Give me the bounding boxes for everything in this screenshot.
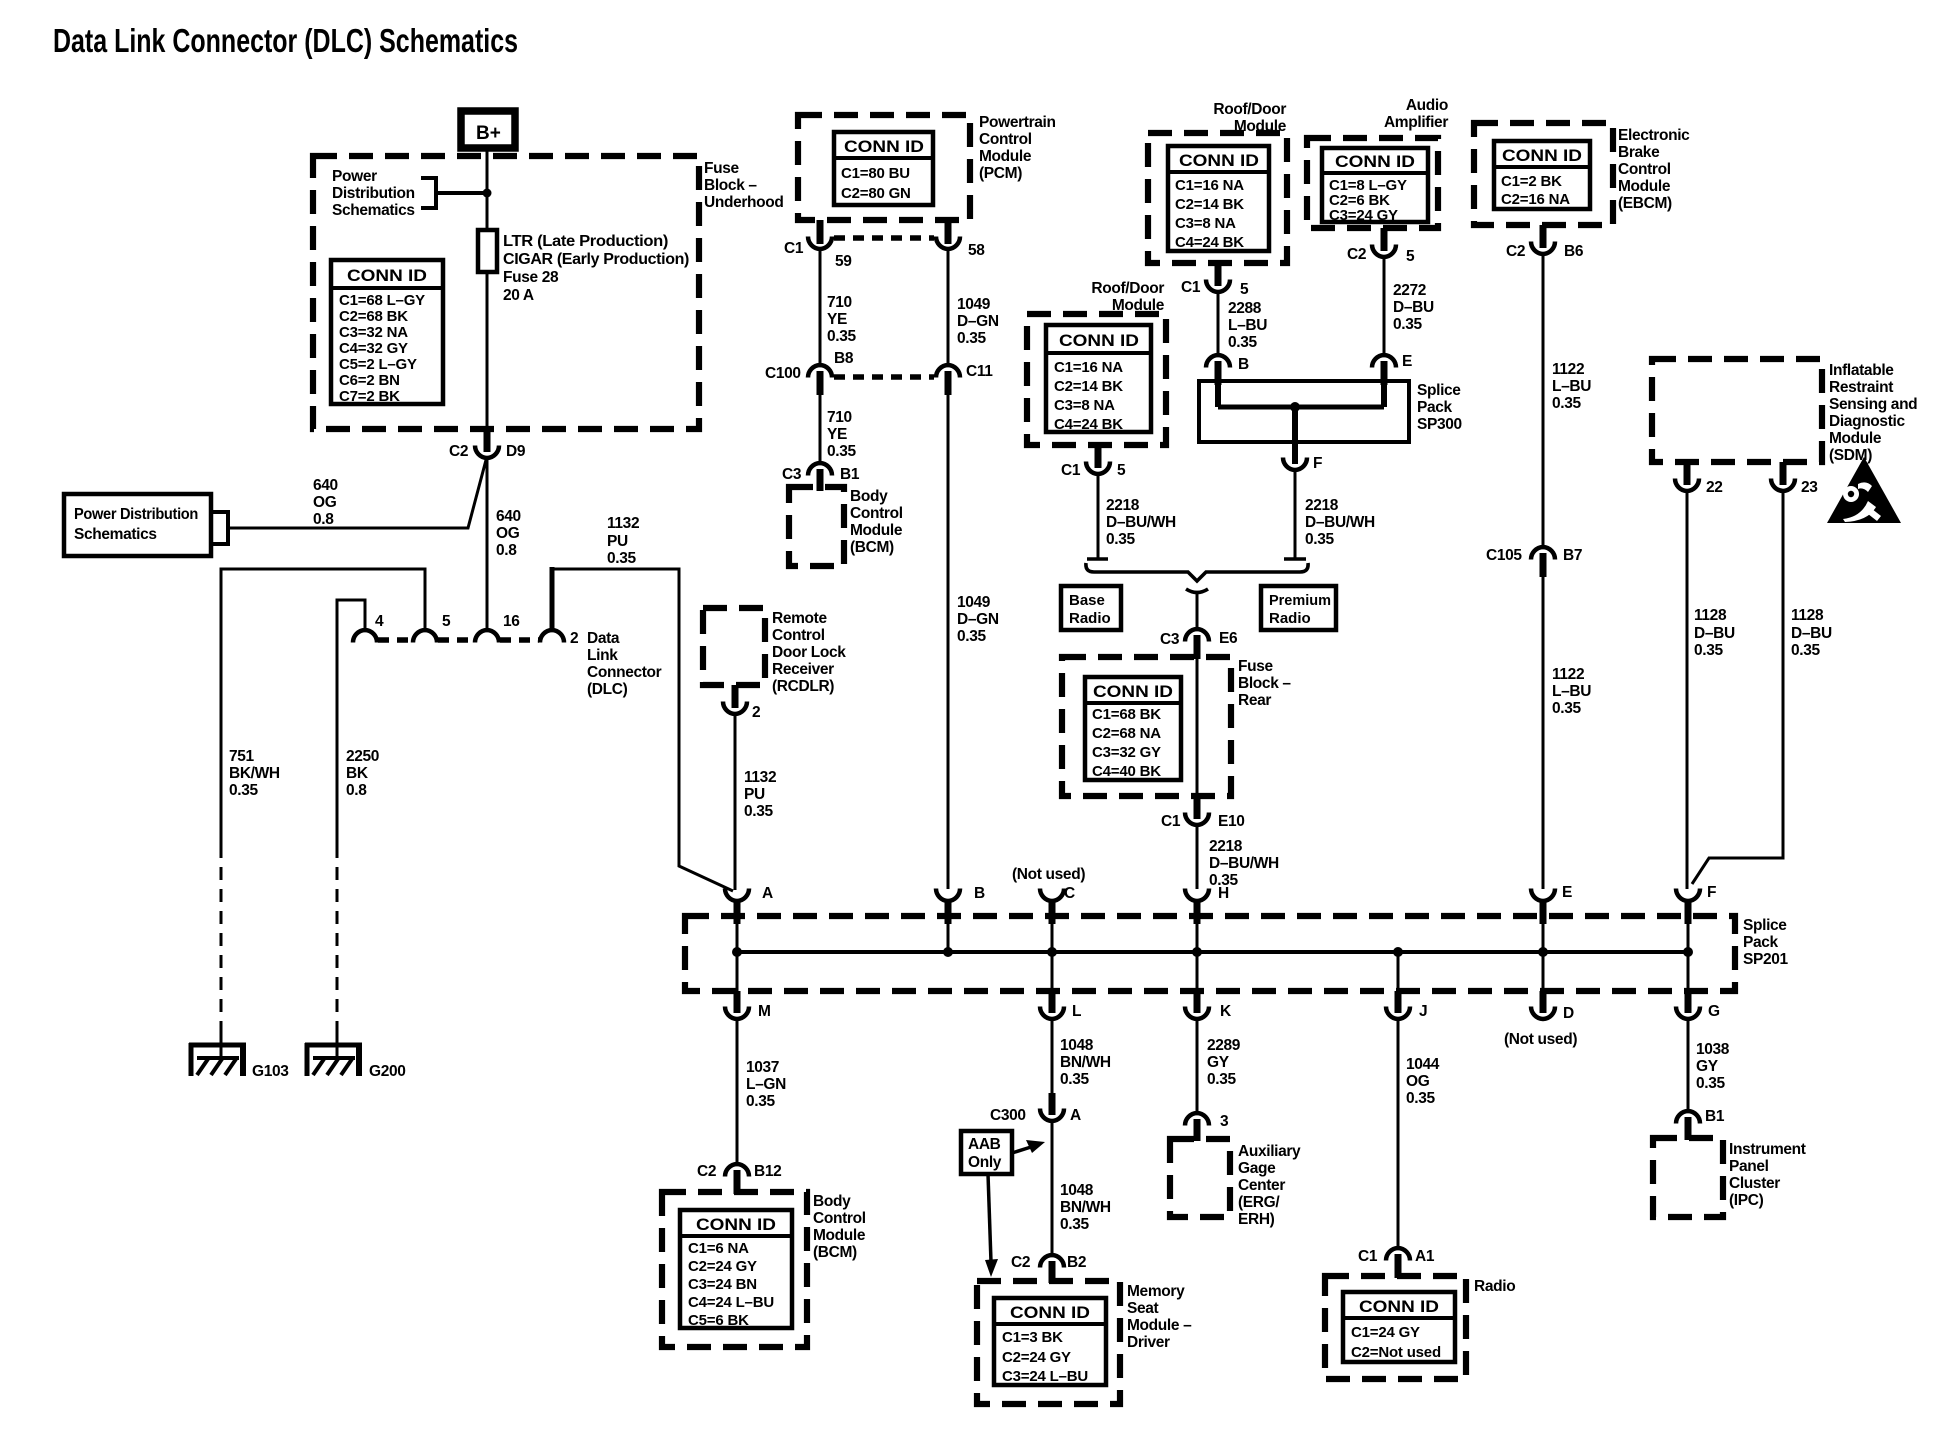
svg-text:BK: BK — [346, 765, 369, 782]
svg-text:(Not used): (Not used) — [1012, 866, 1085, 883]
wire B8 to C3 B1 — [819, 395, 822, 462]
svg-text:2289: 2289 — [1207, 1037, 1241, 1054]
svg-text:1122: 1122 — [1552, 666, 1584, 683]
svg-text:5: 5 — [442, 613, 451, 630]
svg-text:1037: 1037 — [746, 1059, 779, 1076]
roof/door module box — [1148, 133, 1287, 263]
svg-text:Audio: Audio — [1406, 97, 1448, 114]
memory seat module box — [977, 1281, 1120, 1404]
svg-text:C2: C2 — [1506, 243, 1525, 260]
svg-text:B8: B8 — [834, 350, 854, 367]
svg-text:Control: Control — [813, 1210, 866, 1227]
ground G103 — [189, 1032, 246, 1076]
svg-text:C11: C11 — [966, 363, 993, 380]
svg-text:C1=6 NA: C1=6 NA — [688, 1240, 749, 1257]
svg-text:C: C — [1064, 885, 1075, 902]
wire C1-5 to option bar — [1097, 474, 1100, 559]
node junction on B+ wire — [483, 189, 492, 198]
svg-text:C4=24 BK: C4=24 BK — [1054, 416, 1123, 433]
connector E (SP300) — [1372, 353, 1412, 370]
svg-text:1132: 1132 — [607, 515, 639, 532]
node B — [943, 947, 953, 957]
connector C1 5 (roof/door 2) — [1061, 445, 1126, 479]
svg-text:Base: Base — [1069, 592, 1105, 609]
svg-text:Module: Module — [813, 1227, 866, 1244]
wire label 1044 OG 0.35 — [1406, 1056, 1440, 1107]
connector C1 59 (PCM) — [784, 220, 852, 270]
CONN ID table (roof/door 2) — [1046, 325, 1151, 433]
wire label 710 YE 0.35 — [827, 294, 856, 345]
connector E (SP201) — [1531, 884, 1572, 952]
svg-text:3: 3 — [1220, 1113, 1229, 1130]
svg-text:GY: GY — [1696, 1058, 1719, 1075]
connector C300 A — [990, 1093, 1081, 1124]
svg-text:CONN ID: CONN ID — [1359, 1298, 1439, 1316]
fuse block underhood label — [704, 160, 784, 211]
svg-text:Module: Module — [1618, 178, 1671, 195]
CONN ID table (PCM) — [834, 132, 933, 205]
premium radio box — [1261, 586, 1336, 630]
svg-text:Memory: Memory — [1127, 1283, 1185, 1300]
C100 tie line — [834, 374, 934, 380]
svg-text:0.35: 0.35 — [229, 782, 258, 799]
PCM connector tie line — [834, 235, 934, 241]
AAB arrow to memory seat module — [985, 1174, 998, 1277]
svg-text:Module –: Module – — [1127, 1317, 1192, 1334]
wire label 1038 GY 0.35 — [1696, 1041, 1730, 1092]
svg-text:A: A — [1070, 1107, 1081, 1124]
svg-text:LTR (Late Production): LTR (Late Production) — [503, 233, 668, 250]
svg-text:Power Distribution: Power Distribution — [74, 506, 198, 523]
svg-text:Panel: Panel — [1729, 1158, 1769, 1175]
CONN ID table (roof/door 1) — [1168, 146, 1269, 251]
svg-text:B1: B1 — [1705, 1108, 1725, 1125]
svg-text:GY: GY — [1207, 1054, 1230, 1071]
wire label 1037 L-GN 0.35 — [746, 1059, 786, 1110]
svg-text:Control: Control — [850, 505, 903, 522]
wire label 1128 D-BU 0.35 (22) — [1694, 607, 1735, 659]
connector B — [936, 885, 985, 952]
option bar center tap — [1186, 589, 1208, 593]
svg-text:D–BU: D–BU — [1694, 625, 1735, 642]
connector D (not used) — [1504, 952, 1577, 1048]
svg-text:CONN ID: CONN ID — [1179, 152, 1259, 170]
svg-text:OG: OG — [1406, 1073, 1430, 1090]
node F/G — [1683, 947, 1693, 957]
audio amplifier label — [1384, 97, 1448, 131]
svg-text:1128: 1128 — [1791, 607, 1824, 624]
svg-text:C5=2 L–GY: C5=2 L–GY — [339, 356, 417, 373]
svg-text:C1: C1 — [1181, 279, 1201, 296]
svg-text:Door Lock: Door Lock — [772, 644, 846, 661]
svg-text:B: B — [974, 885, 985, 902]
wire label 1049 D-GN 0.35 — [957, 296, 999, 347]
connector C2 B6 — [1506, 225, 1584, 260]
svg-text:C3=32 NA: C3=32 NA — [339, 324, 408, 341]
wire E10 to splice pack H — [1196, 825, 1199, 889]
svg-text:C1=24 GY: C1=24 GY — [1351, 1324, 1420, 1341]
data link connector label — [587, 630, 662, 698]
svg-text:H: H — [1218, 885, 1229, 902]
roof/door module label — [1213, 101, 1286, 135]
svg-text:Schematics: Schematics — [332, 202, 415, 219]
wire end foot (left) — [1087, 557, 1108, 561]
svg-text:(ERG/: (ERG/ — [1238, 1194, 1280, 1211]
RCDLR label — [772, 610, 846, 695]
svg-text:Power: Power — [332, 168, 377, 185]
wire F down to option bar — [1294, 470, 1297, 559]
wire end foot (right) — [1284, 557, 1306, 561]
auxiliary gage center label — [1238, 1143, 1301, 1228]
svg-text:(BCM): (BCM) — [850, 539, 894, 556]
svg-text:CIGAR (Early Production): CIGAR (Early Production) — [503, 251, 689, 268]
svg-text:5: 5 — [1406, 248, 1415, 265]
svg-text:D–BU: D–BU — [1393, 299, 1434, 316]
svg-text:1049: 1049 — [957, 594, 991, 611]
svg-text:CONN ID: CONN ID — [1059, 332, 1139, 350]
audio amplifier box — [1307, 138, 1438, 228]
svg-text:Driver: Driver — [1127, 1334, 1170, 1351]
CONN ID table (fuse block rear) — [1085, 677, 1181, 780]
connector C1 E10 — [1161, 796, 1245, 830]
wire label 1132 PU 0.35 — [607, 515, 639, 567]
wire center tap to C3 E6 — [1196, 594, 1199, 628]
node C/L — [1047, 947, 1057, 957]
connector C2 B12 — [697, 1163, 781, 1194]
svg-text:CONN ID: CONN ID — [844, 138, 924, 156]
svg-text:Diagnostic: Diagnostic — [1829, 413, 1905, 430]
svg-text:Module: Module — [979, 148, 1032, 165]
svg-text:G103: G103 — [252, 1063, 289, 1080]
svg-text:0.35: 0.35 — [957, 628, 986, 645]
svg-text:22: 22 — [1706, 479, 1723, 496]
svg-text:Only: Only — [968, 1154, 1002, 1171]
svg-text:C2: C2 — [449, 443, 468, 460]
stub E into SP300 — [1381, 361, 1388, 385]
wire label 710 YE 0.35 (lower) — [827, 409, 856, 460]
svg-text:C1=16 NA: C1=16 NA — [1175, 177, 1244, 194]
splice pack SP300 box — [1199, 381, 1409, 442]
svg-text:CONN ID: CONN ID — [1335, 153, 1415, 171]
EBCM box — [1474, 123, 1613, 225]
IPC label — [1729, 1141, 1806, 1209]
svg-text:(PCM): (PCM) — [979, 165, 1022, 182]
wire label 1132 PU 0.35 (RCDLR) — [744, 769, 776, 820]
svg-text:C3: C3 — [782, 466, 802, 483]
svg-text:1038: 1038 — [1696, 1041, 1730, 1058]
svg-text:(DLC): (DLC) — [587, 681, 628, 698]
wire label 2218 D-BU/WH 0.35 (from F) — [1305, 497, 1375, 548]
svg-text:G200: G200 — [369, 1063, 406, 1080]
svg-text:SP300: SP300 — [1417, 416, 1462, 433]
svg-text:0.35: 0.35 — [827, 443, 856, 460]
svg-text:1044: 1044 — [1406, 1056, 1440, 1073]
svg-text:2218: 2218 — [1106, 497, 1140, 514]
DLC pin 2 dome — [540, 630, 564, 643]
svg-text:Block –: Block – — [704, 177, 757, 194]
instrument panel cluster box — [1653, 1138, 1723, 1217]
wire label 2250 BK 0.8 — [346, 748, 379, 799]
CONN ID table (BCM lower) — [680, 1210, 792, 1329]
svg-text:Schematics: Schematics — [74, 526, 157, 543]
svg-text:C3=24 L–BU: C3=24 L–BU — [1002, 1368, 1088, 1385]
connector G — [1676, 952, 1720, 1020]
svg-text:58: 58 — [968, 242, 985, 259]
svg-text:20 A: 20 A — [503, 287, 534, 304]
svg-text:Body: Body — [813, 1193, 851, 1210]
connector 58 (PCM) — [936, 220, 985, 259]
svg-text:B+: B+ — [476, 123, 501, 144]
svg-text:2: 2 — [570, 630, 578, 647]
svg-text:D–BU: D–BU — [1791, 625, 1832, 642]
airbag warning symbol — [1827, 457, 1901, 523]
auxiliary gage center box — [1170, 1139, 1230, 1217]
PCM label — [979, 114, 1056, 182]
svg-text:C105: C105 — [1486, 547, 1522, 564]
svg-text:Sensing and: Sensing and — [1829, 396, 1917, 413]
svg-text:C3=24 GY: C3=24 GY — [1329, 207, 1398, 224]
svg-text:Block –: Block – — [1238, 675, 1291, 692]
svg-text:Instrument: Instrument — [1729, 1141, 1806, 1158]
svg-text:CONN ID: CONN ID — [347, 267, 427, 285]
svg-text:59: 59 — [835, 253, 852, 270]
svg-text:Receiver: Receiver — [772, 661, 834, 678]
svg-text:1048: 1048 — [1060, 1182, 1094, 1199]
svg-text:D: D — [1563, 1005, 1574, 1022]
svg-text:2: 2 — [752, 704, 760, 721]
svg-text:Roof/Door: Roof/Door — [1213, 101, 1286, 118]
svg-text:0.35: 0.35 — [1696, 1075, 1725, 1092]
DLC pin 4 dome — [353, 630, 377, 643]
svg-text:Cluster: Cluster — [1729, 1175, 1780, 1192]
svg-text:(RCDLR): (RCDLR) — [772, 678, 834, 695]
svg-text:0.35: 0.35 — [957, 330, 986, 347]
svg-text:C2: C2 — [1011, 1254, 1030, 1271]
fuse LTR/CIGAR Fuse 28 — [478, 230, 689, 304]
svg-text:0.35: 0.35 — [1694, 642, 1723, 659]
svg-text:C100: C100 — [765, 365, 801, 382]
CONN ID table (radio) — [1343, 1292, 1455, 1362]
svg-text:C2=68 NA: C2=68 NA — [1092, 725, 1161, 742]
wire C2-5 to E — [1383, 257, 1386, 354]
svg-text:0.8: 0.8 — [496, 542, 517, 559]
AAB Only box — [961, 1131, 1012, 1174]
svg-text:0.8: 0.8 — [313, 511, 334, 528]
connector F (SP300) — [1283, 455, 1322, 472]
svg-text:C3=24 BN: C3=24 BN — [688, 1276, 757, 1293]
svg-text:AAB: AAB — [968, 1136, 1001, 1153]
svg-text:2218: 2218 — [1209, 838, 1243, 855]
svg-text:Fuse: Fuse — [1238, 658, 1274, 675]
svg-text:Radio: Radio — [1269, 610, 1311, 627]
svg-text:Data Link Connector (DLC) Sche: Data Link Connector (DLC) Schematics — [53, 22, 518, 59]
svg-text:M: M — [758, 1003, 771, 1020]
svg-text:1122: 1122 — [1552, 361, 1584, 378]
svg-text:Module: Module — [850, 522, 903, 539]
svg-text:Control: Control — [979, 131, 1032, 148]
svg-text:0.35: 0.35 — [1228, 334, 1257, 351]
svg-text:OG: OG — [313, 494, 337, 511]
connector C100 B8 — [765, 350, 854, 395]
connector C1 A1 — [1358, 1248, 1435, 1278]
svg-text:C1=2 BK: C1=2 BK — [1501, 173, 1562, 190]
wire B6 to C105 — [1542, 254, 1545, 546]
wire B+ to fuse — [486, 147, 489, 231]
connector B (SP300) — [1206, 355, 1249, 373]
svg-text:Remote: Remote — [772, 610, 827, 627]
connector J — [1386, 952, 1427, 1020]
svg-text:5: 5 — [1240, 281, 1249, 298]
connector C2 D9 — [449, 429, 526, 460]
powertrain control module box — [798, 115, 970, 220]
connector 3 — [1185, 1113, 1229, 1141]
connector F (SP201) — [1676, 884, 1716, 952]
CONN ID table (memory seat) — [994, 1298, 1106, 1385]
svg-text:C2=14 BK: C2=14 BK — [1054, 378, 1123, 395]
DLC tie line — [378, 637, 539, 643]
svg-text:D–BU/WH: D–BU/WH — [1106, 514, 1176, 531]
svg-text:Distribution: Distribution — [332, 185, 415, 202]
svg-text:C1=68 BK: C1=68 BK — [1092, 706, 1161, 723]
svg-text:C1: C1 — [1358, 1248, 1378, 1265]
svg-text:2272: 2272 — [1393, 282, 1426, 299]
wire DLC pin 2 to splice pack A — [550, 567, 555, 630]
svg-text:1132: 1132 — [744, 769, 776, 786]
svg-text:BK/WH: BK/WH — [229, 765, 280, 782]
svg-text:L: L — [1072, 1003, 1081, 1020]
svg-text:Seat: Seat — [1127, 1300, 1159, 1317]
svg-text:Amplifier: Amplifier — [1384, 114, 1448, 131]
svg-text:BN/WH: BN/WH — [1060, 1054, 1111, 1071]
SP201 label — [1743, 917, 1789, 968]
svg-text:16: 16 — [503, 613, 520, 630]
wire 22 to splice pack F — [1686, 491, 1689, 889]
memory seat module label — [1127, 1283, 1192, 1351]
svg-text:B: B — [1238, 356, 1249, 373]
DLC pin 16 dome — [475, 630, 499, 643]
node E/D — [1538, 947, 1548, 957]
connector C2 B2 — [1011, 1254, 1086, 1283]
svg-text:C3=8 NA: C3=8 NA — [1175, 215, 1236, 232]
svg-text:(Not used): (Not used) — [1504, 1031, 1577, 1048]
svg-text:0.35: 0.35 — [1207, 1071, 1236, 1088]
svg-text:2288: 2288 — [1228, 300, 1262, 317]
svg-text:C1=68 L–GY: C1=68 L–GY — [339, 292, 425, 309]
svg-text:710: 710 — [827, 294, 852, 311]
svg-text:A: A — [762, 885, 773, 902]
svg-text:C2=80 GN: C2=80 GN — [841, 185, 911, 202]
body control module box (lower) — [662, 1192, 807, 1347]
wire J to C1 A1 — [1397, 1019, 1400, 1247]
SDM label — [1829, 362, 1917, 464]
svg-text:Restraint: Restraint — [1829, 379, 1893, 396]
CONN ID table (amplifier) — [1322, 148, 1428, 224]
svg-text:640: 640 — [313, 477, 338, 494]
connector H — [1185, 885, 1229, 952]
svg-text:B6: B6 — [1564, 243, 1584, 260]
svg-text:0.35: 0.35 — [1060, 1216, 1089, 1233]
svg-text:0.35: 0.35 — [1552, 395, 1581, 412]
svg-text:Rear: Rear — [1238, 692, 1271, 709]
svg-text:L–BU: L–BU — [1552, 378, 1591, 395]
svg-text:0.35: 0.35 — [746, 1093, 775, 1110]
svg-text:C1: C1 — [1161, 813, 1181, 830]
svg-text:F: F — [1707, 884, 1716, 901]
connector C3 B1 — [782, 463, 860, 491]
SDM box — [1652, 359, 1822, 462]
svg-text:Data: Data — [587, 630, 620, 647]
svg-text:640: 640 — [496, 508, 521, 525]
remote control door lock receiver box — [703, 608, 765, 685]
svg-text:Brake: Brake — [1618, 144, 1660, 161]
wire label 751 BK/WH 0.35 — [229, 748, 280, 799]
connector L — [1040, 952, 1081, 1020]
wire label 640 OG 0.8 (right) — [496, 508, 521, 559]
svg-text:5: 5 — [1117, 462, 1126, 479]
svg-text:0.35: 0.35 — [607, 550, 636, 567]
svg-text:Control: Control — [1618, 161, 1671, 178]
svg-text:Inflatable: Inflatable — [1829, 362, 1894, 379]
svg-text:Body: Body — [850, 488, 888, 505]
svg-text:C4=40 BK: C4=40 BK — [1092, 763, 1161, 780]
svg-text:C2=24 GY: C2=24 GY — [1002, 1349, 1071, 1366]
svg-text:E6: E6 — [1219, 630, 1238, 647]
EBCM label — [1618, 127, 1690, 212]
wire label 1128 D-BU 0.35 (23) — [1791, 607, 1832, 659]
wire RCDLR to splice pack A — [734, 714, 737, 890]
body control module box (upper) — [789, 487, 844, 566]
wire G to B1 — [1687, 1019, 1690, 1110]
svg-text:Powertrain: Powertrain — [979, 114, 1056, 131]
wire label 2218 D-BU/WH 0.35 (roof/door 2) — [1106, 497, 1176, 548]
connector A — [725, 885, 773, 952]
svg-text:Roof/Door: Roof/Door — [1091, 280, 1164, 297]
svg-text:D–BU/WH: D–BU/WH — [1305, 514, 1375, 531]
svg-text:CONN ID: CONN ID — [1010, 1304, 1090, 1322]
roof/door module 2 label — [1091, 280, 1164, 314]
CONN ID table (fuse block underhood) — [331, 260, 443, 405]
svg-text:0.35: 0.35 — [1305, 531, 1334, 548]
wire label 2218 D-BU/WH 0.35 (E10) — [1209, 838, 1279, 889]
svg-text:BN/WH: BN/WH — [1060, 1199, 1111, 1216]
svg-text:C6=2 BN: C6=2 BN — [339, 372, 400, 389]
svg-text:C4=24 L–BU: C4=24 L–BU — [688, 1294, 774, 1311]
svg-text:0.35: 0.35 — [1406, 1090, 1435, 1107]
svg-text:C1: C1 — [784, 240, 804, 257]
svg-text:C2: C2 — [697, 1163, 716, 1180]
svg-text:2218: 2218 — [1305, 497, 1339, 514]
svg-text:0.8: 0.8 — [346, 782, 367, 799]
svg-text:B12: B12 — [754, 1163, 781, 1180]
wire label 1122 L-BU 0.35 — [1552, 361, 1591, 412]
roof/door module 2 box — [1027, 314, 1166, 445]
base radio box — [1061, 586, 1121, 630]
fuse block underhood box — [313, 156, 699, 429]
connector K — [1185, 952, 1232, 1020]
svg-text:0.35: 0.35 — [1060, 1071, 1089, 1088]
stub to F — [1292, 407, 1298, 464]
svg-text:Gage: Gage — [1238, 1160, 1276, 1177]
svg-text:Splice: Splice — [1417, 382, 1461, 399]
svg-text:D–BU/WH: D–BU/WH — [1209, 855, 1279, 872]
svg-text:C1=16 NA: C1=16 NA — [1054, 359, 1123, 376]
svg-text:0.35: 0.35 — [1393, 316, 1422, 333]
connector B1 — [1676, 1108, 1725, 1140]
svg-text:1049: 1049 — [957, 296, 991, 313]
svg-text:Premium: Premium — [1269, 592, 1331, 609]
svg-text:C3=32 GY: C3=32 GY — [1092, 744, 1161, 761]
CONN ID table (EBCM) — [1494, 141, 1590, 209]
